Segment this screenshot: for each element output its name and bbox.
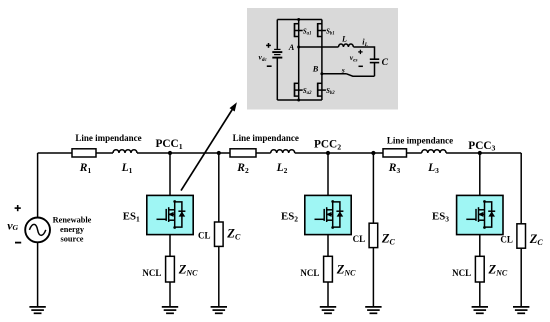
svg-text:NCL: NCL: [452, 268, 471, 278]
svg-text:PCC1: PCC1: [156, 138, 183, 151]
svg-text:A: A: [288, 43, 295, 52]
svg-text:energy: energy: [60, 225, 85, 234]
svg-text:s: s: [341, 66, 345, 75]
svg-text:CL: CL: [500, 235, 513, 245]
svg-text:PCC3: PCC3: [468, 140, 495, 153]
svg-text:Line impendance: Line impendance: [387, 135, 453, 145]
svg-text:B: B: [312, 65, 319, 74]
svg-text:NCL: NCL: [300, 268, 319, 278]
svg-text:Line impendance: Line impendance: [233, 133, 299, 143]
svg-text:PCC2: PCC2: [314, 139, 341, 152]
svg-text:CL: CL: [353, 234, 366, 244]
svg-text:C: C: [382, 57, 389, 68]
svg-text:Renewable: Renewable: [53, 215, 92, 224]
svg-text:Line impendance: Line impendance: [75, 133, 141, 143]
svg-text:CL: CL: [198, 231, 211, 241]
svg-text:source: source: [61, 235, 84, 244]
svg-text:NCL: NCL: [142, 268, 161, 278]
svg-text:L: L: [341, 34, 347, 43]
